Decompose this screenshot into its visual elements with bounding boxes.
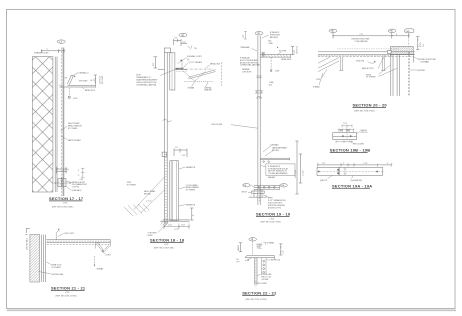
svg-text:COLUMN: COLUMN bbox=[261, 279, 269, 281]
svg-text:2'-8": 2'-8" bbox=[322, 163, 326, 165]
deck dots in beam bbox=[318, 55, 392, 57]
lower wall assembly bbox=[170, 161, 179, 221]
svg-text:W BEAM: W BEAM bbox=[97, 267, 104, 270]
end bolts bbox=[318, 171, 320, 173]
svg-text:METAL STUD: METAL STUD bbox=[52, 264, 63, 267]
svg-text:SEALANT: SEALANT bbox=[268, 176, 275, 179]
leaders bbox=[178, 58, 187, 64]
leaders bbox=[252, 49, 258, 52]
svg-text:BEYOND: BEYOND bbox=[144, 194, 152, 196]
svg-text:3": 3" bbox=[68, 169, 70, 171]
leaders longwall bbox=[263, 146, 273, 157]
svg-text:1/4 TYP: 1/4 TYP bbox=[90, 80, 96, 82]
svg-text:±: ± bbox=[384, 172, 385, 174]
detail bubble P1 bbox=[255, 32, 263, 35]
svg-text:(REF. SECTION 16 SIM.): (REF. SECTION 16 SIM.) bbox=[52, 206, 74, 208]
svg-text:BY OTHERS: BY OTHERS bbox=[366, 77, 375, 79]
right base dim bbox=[190, 208, 194, 220]
svg-text:SEGMENT B: SEGMENT B bbox=[186, 167, 195, 169]
left dim bbox=[239, 243, 242, 252]
right end bracket bbox=[95, 240, 110, 253]
leader W beam bbox=[192, 82, 195, 87]
leaders below bbox=[328, 176, 354, 179]
cont leader bbox=[158, 224, 167, 233]
svg-text:BY OTHERS: BY OTHERS bbox=[68, 128, 77, 130]
svg-text:2 PLS: 2 PLS bbox=[164, 244, 168, 246]
W beam dashed bbox=[94, 256, 96, 267]
svg-text:METAL DECK: METAL DECK bbox=[210, 63, 221, 66]
centerline bbox=[346, 127, 348, 142]
svg-text:SECTION 19B - 19B: SECTION 19B - 19B bbox=[330, 148, 371, 153]
stem HSS bbox=[255, 258, 257, 285]
svg-text:MOUNTING LEVELING: MOUNTING LEVELING bbox=[268, 205, 286, 207]
mullion rectangle bbox=[170, 53, 175, 90]
svg-text:LONGWALL (CONT.): LONGWALL (CONT.) bbox=[187, 55, 202, 58]
GRID tag bbox=[405, 29, 415, 33]
svg-text:HSS COLUMN: HSS COLUMN bbox=[353, 144, 364, 146]
beam top/bottom bbox=[318, 52, 415, 55]
leader steel column bbox=[231, 125, 258, 129]
svg-text:7 (E: 7 (E bbox=[194, 48, 197, 50]
leader metal deck bbox=[82, 87, 84, 89]
column splice ticks bbox=[257, 76, 262, 78]
svg-text:FACE OF WALL: FACE OF WALL bbox=[144, 190, 156, 193]
svg-text:HSS COLUMN: HSS COLUMN bbox=[212, 124, 223, 126]
center splice bbox=[338, 167, 341, 175]
svg-text:COLD FORMED: COLD FORMED bbox=[186, 185, 199, 187]
svg-text:ALT PIER: ALT PIER bbox=[279, 50, 287, 53]
dashed existing columns bbox=[408, 52, 409, 96]
svg-text:BEYOND: BEYOND bbox=[272, 150, 280, 152]
long left leaders bbox=[134, 177, 164, 213]
edge marks at frame bbox=[25, 228, 30, 234]
svg-text:W BEAM: W BEAM bbox=[313, 86, 320, 89]
svg-text:2'-0 PLS: 2'-0 PLS bbox=[256, 97, 262, 99]
svg-text:1/4: 1/4 bbox=[236, 259, 238, 261]
leaders to notes bbox=[66, 181, 72, 191]
existing hatched wall bbox=[30, 235, 40, 283]
short dotted line bbox=[176, 70, 187, 72]
svg-text:BY OTHERS: BY OTHERS bbox=[186, 190, 195, 192]
angle bracket with bolts bbox=[261, 258, 266, 274]
steel column bbox=[258, 36, 260, 205]
svg-text:EXTEND HSS: EXTEND HSS bbox=[261, 274, 271, 276]
svg-text:@ SP EQ: @ SP EQ bbox=[72, 187, 80, 189]
svg-text:L4x4: L4x4 bbox=[96, 243, 100, 245]
svg-text:(ONE WALL): (ONE WALL) bbox=[72, 189, 82, 192]
grid dashed from tag bbox=[408, 33, 410, 47]
svg-text:METAL DECK: METAL DECK bbox=[85, 89, 96, 92]
upper bracket lines bbox=[260, 158, 289, 161]
I post mid bbox=[381, 57, 385, 71]
svg-text:LANDSCAPE BEAM: LANDSCAPE BEAM bbox=[272, 147, 287, 150]
svg-text:WELD TO (4): WELD TO (4) bbox=[261, 276, 271, 278]
bubble P5 bbox=[388, 29, 396, 32]
joist hanger dashed bbox=[270, 57, 272, 69]
svg-text:2'-0" PLUS: 2'-0" PLUS bbox=[297, 46, 299, 54]
svg-text:GROUT: GROUT bbox=[241, 192, 247, 194]
right dim lines bbox=[295, 141, 298, 194]
svg-text:EXISTING WALL: EXISTING WALL bbox=[52, 273, 64, 276]
svg-text:2 PLS: 2 PLS bbox=[63, 202, 67, 204]
svg-text:TUBE: TUBE bbox=[269, 82, 273, 84]
base line bbox=[163, 220, 190, 221]
svg-text:UNDER: UNDER bbox=[257, 244, 264, 246]
svg-text:4": 4" bbox=[343, 162, 345, 164]
svg-text:BLD: BLD bbox=[268, 40, 272, 42]
svg-text:1'-10": 1'-10" bbox=[364, 163, 368, 165]
break symbol bbox=[163, 119, 172, 122]
leaders joist/w beam bbox=[319, 69, 327, 85]
svg-text:J TBA BEAM: J TBA BEAM bbox=[240, 46, 250, 49]
svg-text:3": 3" bbox=[78, 175, 80, 177]
svg-text:(REF. SECTION 9 SIM.): (REF. SECTION 9 SIM.) bbox=[261, 222, 282, 224]
dashed centerline from bubble bbox=[252, 241, 254, 255]
wavy leader bbox=[250, 185, 254, 187]
leaders right notes bbox=[179, 167, 185, 206]
base plate bbox=[252, 191, 265, 193]
grid line arrow bbox=[368, 62, 375, 64]
svg-text:TUBE: TUBE bbox=[268, 43, 272, 45]
small top dims bbox=[257, 246, 262, 249]
dim right of bracket bbox=[94, 75, 97, 86]
svg-text:SECTION 18 - 18: SECTION 18 - 18 bbox=[150, 238, 185, 243]
bolted bracket bbox=[254, 185, 279, 190]
svg-text:BY OTHERS: BY OTHERS bbox=[52, 267, 61, 269]
edge angle block bbox=[387, 50, 391, 53]
svg-text:L6x6 BRACKET: L6x6 BRACKET bbox=[351, 179, 362, 182]
svg-text:W8x31: W8x31 bbox=[366, 74, 371, 76]
svg-text:UP BEAM: UP BEAM bbox=[267, 242, 275, 245]
angle plates (3 lines) bbox=[333, 132, 357, 139]
svg-text:(ANGLE CONT.): (ANGLE CONT.) bbox=[362, 67, 374, 70]
svg-text:JOIST: JOIST bbox=[316, 79, 321, 81]
svg-text:W BEAM: W BEAM bbox=[188, 86, 195, 89]
svg-text:(REF. SECTION 16 SIM.): (REF. SECTION 16 SIM.) bbox=[56, 295, 78, 297]
leader lateral bracket bbox=[206, 82, 209, 87]
leader metal deck bbox=[206, 65, 211, 69]
top small dims bbox=[174, 39, 188, 46]
leaders bbox=[357, 132, 360, 134]
existing slab hatch bbox=[391, 47, 414, 55]
lower dims top bbox=[174, 149, 187, 158]
far-left small dim bbox=[244, 32, 247, 40]
post (HSS) bbox=[165, 53, 168, 224]
svg-text:2HR FIRE WALL: 2HR FIRE WALL bbox=[26, 238, 29, 250]
svg-text:2 PLS: 2 PLS bbox=[270, 218, 274, 220]
svg-text:2'-0": 2'-0" bbox=[243, 34, 245, 38]
twin columns bbox=[391, 55, 400, 96]
svg-text:SECTION 22 - 22: SECTION 22 - 22 bbox=[242, 290, 277, 295]
svg-text:SST PLATE: SST PLATE bbox=[101, 76, 104, 84]
right top bracket note mark bbox=[188, 46, 193, 50]
svg-text:CONT. JOINT: CONT. JOINT bbox=[64, 233, 74, 235]
svg-text:1/2": 1/2" bbox=[175, 38, 178, 40]
svg-text:SEGMENT A: SEGMENT A bbox=[186, 203, 196, 206]
right dim bbox=[279, 244, 282, 255]
bubble P4 bbox=[249, 238, 257, 241]
leaders bbox=[267, 259, 271, 261]
bubble P6 bbox=[329, 29, 337, 32]
deck slope lines bbox=[188, 70, 215, 79]
svg-text:CONT NOTE: CONT NOTE bbox=[242, 72, 251, 74]
left dim bbox=[154, 57, 158, 68]
right small dims bbox=[81, 168, 85, 177]
stud blocking ticks bbox=[165, 155, 168, 219]
svg-text:NOTE:: NOTE: bbox=[136, 75, 141, 77]
wall finish lines bbox=[55, 57, 57, 192]
svg-text:SST PLATE: SST PLATE bbox=[79, 79, 87, 82]
masonry wall (hatched) bbox=[32, 57, 53, 192]
base dim bbox=[164, 224, 189, 230]
deck / beam lines bbox=[46, 240, 110, 243]
top track box bbox=[162, 152, 166, 156]
svg-text:(REF. SECTION 12 SIM.): (REF. SECTION 12 SIM.) bbox=[246, 299, 268, 301]
wall stud lines bbox=[42, 235, 46, 283]
top dim line bbox=[333, 33, 409, 39]
svg-text:8 1/2"±: 8 1/2"± bbox=[420, 42, 422, 47]
svg-text:N TBA DECK: N TBA DECK bbox=[270, 31, 280, 34]
svg-text:CONT BENT: CONT BENT bbox=[148, 233, 157, 235]
floor hatch lower-left bbox=[124, 204, 150, 216]
bent plate at base bbox=[160, 221, 166, 224]
svg-text:L TYP: L TYP bbox=[174, 229, 178, 231]
svg-text:METAL PLACKET: METAL PLACKET bbox=[72, 181, 85, 184]
right dim bbox=[416, 37, 419, 50]
svg-text:2 PLS: 2 PLS bbox=[65, 292, 69, 294]
page bottom shadow bbox=[7, 309, 456, 311]
svg-text:LONGWALL: LONGWALL bbox=[270, 143, 279, 146]
svg-text:2'-0" PLUS: 2'-0" PLUS bbox=[99, 76, 101, 84]
svg-text:SECTION 17 - 17: SECTION 17 - 17 bbox=[49, 196, 84, 201]
bearing connection marks bbox=[176, 67, 184, 69]
detail bubble P7 bbox=[179, 33, 187, 36]
leaders W8 bbox=[379, 65, 398, 77]
svg-text:JOINT: JOINT bbox=[127, 182, 132, 184]
bottom chord dashed bbox=[184, 80, 214, 82]
svg-text:19B: 19B bbox=[243, 185, 246, 187]
right grid dashed bbox=[221, 62, 223, 86]
I post left bbox=[339, 57, 343, 71]
svg-text:1'-0": 1'-0" bbox=[175, 147, 179, 149]
detail bubble divider ticks bbox=[61, 29, 392, 240]
svg-text:VARIES: VARIES bbox=[237, 245, 240, 251]
svg-text:(2)BOLTS: (2)BOLTS bbox=[320, 180, 327, 182]
svg-text:4 1/4: 4 1/4 bbox=[80, 179, 84, 181]
top bracket bbox=[56, 231, 59, 240]
slab edge line below bbox=[412, 54, 414, 62]
svg-text:NOTE:: NOTE: bbox=[268, 198, 273, 200]
leader L joint bbox=[103, 253, 105, 254]
svg-text:1 1/2": 1 1/2" bbox=[182, 42, 187, 44]
svg-text:BY OTHERS: BY OTHERS bbox=[127, 184, 136, 186]
svg-text:(REF. SECTION 9 SIM.): (REF. SECTION 9 SIM.) bbox=[154, 247, 175, 249]
tick for UP BEAM bbox=[264, 242, 266, 244]
extension at 377 bbox=[377, 164, 379, 167]
19A bubble bbox=[280, 184, 287, 187]
svg-text:CONT 2.8: CONT 2.8 bbox=[360, 132, 367, 134]
joist web V bbox=[183, 71, 206, 81]
right dim bbox=[291, 47, 294, 55]
bolt detail at column bbox=[261, 52, 265, 56]
note leader bbox=[160, 68, 178, 75]
svg-text:5 1/2": 5 1/2" bbox=[182, 155, 187, 157]
detail bubble P1 bbox=[57, 40, 65, 43]
svg-text:8": 8" bbox=[193, 214, 195, 216]
svg-text:PARTITION WALL: PARTITION WALL bbox=[68, 139, 81, 142]
svg-text:SECTION 19 - 19: SECTION 19 - 19 bbox=[256, 212, 291, 217]
svg-text:EXISTING: EXISTING bbox=[417, 70, 425, 72]
svg-text:1'-2": 1'-2" bbox=[283, 250, 285, 254]
svg-text:GENERAL: GENERAL bbox=[242, 68, 250, 71]
svg-text:TO BE REMOVED: TO BE REMOVED bbox=[355, 41, 369, 43]
19B bubble bbox=[243, 184, 250, 187]
svg-text:8'-0": 8'-0" bbox=[153, 62, 155, 66]
top dims bbox=[342, 124, 352, 127]
post cap bbox=[164, 48, 170, 53]
note box bbox=[266, 164, 295, 176]
svg-text:GRID LINE: GRID LINE bbox=[356, 60, 364, 62]
top dim line bbox=[318, 164, 392, 166]
centerline bbox=[317, 171, 383, 173]
bottom bolt detail bbox=[57, 169, 68, 171]
svg-text:W COLUMN: W COLUMN bbox=[258, 283, 268, 285]
small dim below splice bbox=[257, 96, 261, 98]
svg-text:(2) 1/2" THREADS: (2) 1/2" THREADS bbox=[189, 61, 202, 64]
svg-text:7/8: 7/8 bbox=[65, 77, 67, 79]
svg-text:1 1/2": 1 1/2" bbox=[181, 225, 186, 227]
svg-text:SECTION 20 - 20: SECTION 20 - 20 bbox=[353, 102, 388, 107]
svg-text:TYP: TYP bbox=[236, 261, 239, 263]
top tee plate bbox=[245, 255, 274, 259]
svg-text:JOIST: JOIST bbox=[275, 71, 280, 73]
leader longwall bbox=[72, 73, 78, 76]
stud wall lines bbox=[62, 48, 65, 197]
dashed line under beam bbox=[318, 56, 414, 58]
existing deck dotted line bbox=[337, 48, 400, 50]
svg-text:EXISTING STRUCTURE: EXISTING STRUCTURE bbox=[418, 59, 436, 61]
svg-text:2'-0" PLUS: 2'-0" PLUS bbox=[295, 170, 297, 178]
angle bracket detail bbox=[60, 85, 96, 88]
svg-text:(REF. SECTION 8 SIM.): (REF. SECTION 8 SIM.) bbox=[355, 111, 376, 113]
svg-text:N THE ANGLE'S: N THE ANGLE'S bbox=[268, 165, 280, 168]
svg-text:N TBA ALIGN: N TBA ALIGN bbox=[240, 57, 251, 60]
leaders to notes bbox=[39, 262, 51, 274]
svg-text:1'-6 1/2": 1'-6 1/2" bbox=[302, 170, 304, 176]
svg-text:"L" TYP: "L" TYP bbox=[146, 201, 152, 203]
weld symbol bbox=[245, 258, 252, 261]
left slope diagonals bbox=[318, 57, 339, 72]
svg-text:SECTION 19A - 19A: SECTION 19A - 19A bbox=[332, 183, 372, 188]
svg-text:L ANGLE: L ANGLE bbox=[360, 129, 367, 132]
below dims bbox=[336, 140, 352, 143]
svg-text:7 7/8": 7 7/8" bbox=[294, 49, 296, 54]
bar plate bbox=[317, 167, 383, 175]
bolt heads row bbox=[339, 129, 353, 132]
svg-text:V.I.F.: V.I.F. bbox=[423, 43, 425, 47]
svg-text:JOIST: JOIST bbox=[73, 98, 78, 100]
svg-text:GALV FORMED: GALV FORMED bbox=[68, 122, 80, 125]
top chord dash-dot bbox=[176, 68, 213, 70]
svg-text:2 PL: 2 PL bbox=[360, 34, 363, 36]
dim line expansion joint bbox=[41, 49, 64, 53]
svg-text:L JOINT: L JOINT bbox=[105, 255, 111, 257]
leader to note bbox=[264, 195, 270, 198]
beam with deck bbox=[260, 54, 290, 58]
grout hatch bbox=[249, 196, 267, 198]
bolt dots bbox=[342, 135, 344, 137]
svg-text:1 1/2": 1 1/2" bbox=[343, 123, 348, 125]
right leaders bbox=[410, 57, 418, 70]
svg-text:METAL DECK: METAL DECK bbox=[281, 58, 292, 61]
svg-text:3": 3" bbox=[78, 170, 80, 172]
svg-text:BLD: BLD bbox=[269, 84, 273, 86]
svg-text:HIGH MOUNT: HIGH MOUNT bbox=[270, 34, 280, 36]
svg-text:LONGWALL(L): LONGWALL(L) bbox=[78, 71, 89, 74]
stud dashed line bbox=[60, 48, 62, 197]
svg-text:HSS BLOCK: HSS BLOCK bbox=[271, 260, 281, 262]
thread note arrow bbox=[182, 63, 188, 69]
svg-text:SECTION 21 - 21: SECTION 21 - 21 bbox=[51, 286, 86, 291]
svg-text:EXISTING STRUCTURE: EXISTING STRUCTURE bbox=[352, 39, 370, 41]
joist anchor below bbox=[68, 88, 70, 96]
svg-text:1 1/2": 1 1/2" bbox=[168, 225, 173, 227]
